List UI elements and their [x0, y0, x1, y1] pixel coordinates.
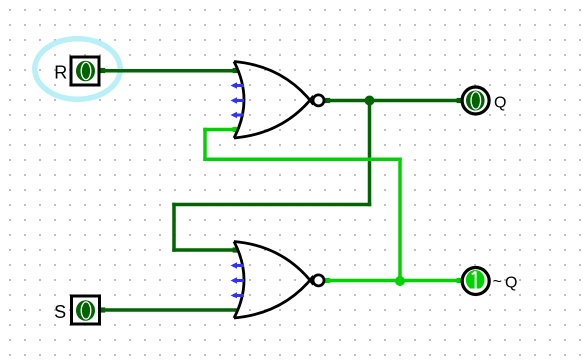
wire horizontal feedback ~Q to left: [203, 157, 402, 161]
U1 unused input stubs: [231, 82, 245, 118]
output pin Q: [462, 87, 489, 114]
wire S to gate U2 input: [100, 308, 238, 312]
wire vertical down to gate U2: [172, 203, 176, 252]
wire U1 output to Q: [324, 99, 462, 103]
wire into gate U1 bottom input: [203, 128, 238, 132]
svg-text:~: ~: [493, 273, 502, 290]
wire end caps dark: [100, 68, 462, 313]
wire vertical from node B up: [398, 157, 402, 282]
NOR gate U2: [234, 242, 324, 319]
wire vertical from node A down: [368, 101, 372, 207]
svg-text:R: R: [54, 63, 67, 83]
wire vertical up to gate U1: [203, 128, 207, 161]
svg-text:Q: Q: [505, 275, 517, 292]
svg-text:Q: Q: [494, 94, 506, 111]
node B junction dot: [395, 276, 405, 286]
input pin S: [72, 296, 100, 324]
node A junction dot: [365, 96, 375, 106]
svg-text:S: S: [54, 302, 66, 322]
wire into gate U2 top input: [172, 248, 238, 252]
U2 unused input stubs: [231, 262, 245, 298]
wire U2 output to ~Q: [324, 279, 462, 283]
input pin R: [71, 57, 99, 85]
NOR gate U1: [234, 62, 324, 139]
selection halo around pin R: [35, 39, 120, 99]
wire R to gate U1 input: [100, 69, 238, 73]
wire horizontal feedback Q to left: [172, 203, 371, 207]
wire end caps bright: [233, 127, 462, 283]
output pin ~Q: [462, 268, 489, 295]
